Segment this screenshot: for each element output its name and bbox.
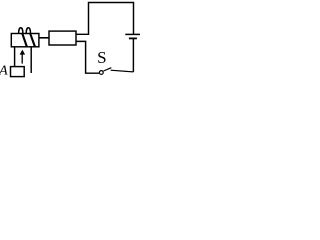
svg-text:A: A bbox=[0, 64, 8, 79]
svg-text:S: S bbox=[97, 48, 106, 67]
